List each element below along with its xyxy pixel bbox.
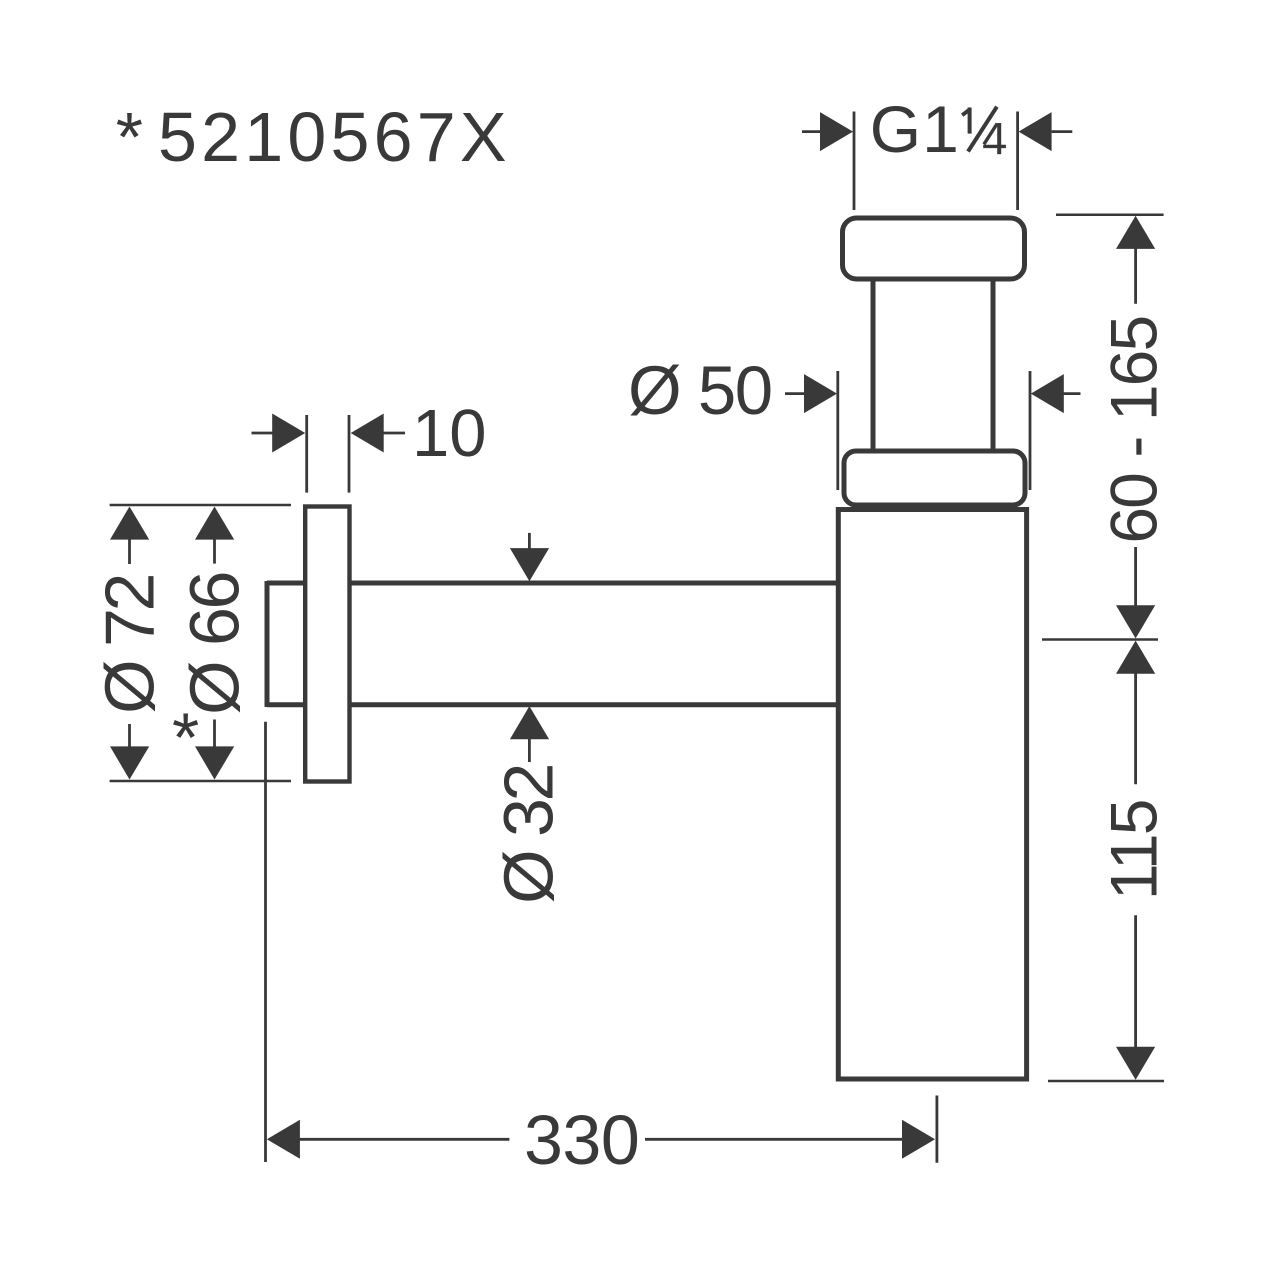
node body: bottle cup rectangle [838, 510, 1026, 1080]
svg-text:60 - 165: 60 - 165 [1097, 317, 1171, 544]
svg-text:330: 330 [524, 1101, 639, 1179]
svg-text:*: * [116, 98, 143, 176]
wire: pipe left end cap [265, 581, 270, 707]
svg-text:Ø 32: Ø 32 [489, 766, 567, 904]
dimension D66 (flange inner, starred) [213, 539, 216, 747]
wire: threaded tube left line [871, 281, 876, 451]
wire: horizontal pipe bottom line [267, 702, 836, 707]
siphon body outline group (thick strokes) [267, 218, 1027, 1079]
dimension D32 (pipe diameter) [528, 533, 531, 762]
svg-text:10: 10 [412, 396, 487, 471]
svg-text:115: 115 [1097, 800, 1171, 900]
dimension G 1 1/4 [802, 112, 1072, 211]
node wall flange rect [305, 507, 349, 782]
node top nut rounded rect [843, 218, 1025, 279]
dimension 115 (right lower) [1134, 673, 1137, 1047]
wire: threaded tube right line [991, 281, 996, 451]
svg-text:Ø 50: Ø 50 [628, 352, 772, 429]
svg-text:5210567X: 5210567X [158, 98, 511, 176]
dimension D50 (body diameter) [785, 371, 1081, 490]
node lower nut rounded rect [844, 451, 1025, 505]
dimension 60 - 165 (right upper) [1042, 215, 1164, 640]
svg-text:Ø 72: Ø 72 [91, 576, 169, 714]
dimension 10 (flange thickness) [252, 415, 406, 493]
part number label * 5210567X [116, 98, 511, 176]
svg-text:Ø 66: Ø 66 [176, 573, 254, 715]
dimension D72 (flange outer) [110, 505, 291, 781]
svg-text:G1: G1 [870, 92, 960, 166]
wire: horizontal pipe top line [267, 581, 836, 586]
dimension 330 (bottom) [266, 722, 937, 1163]
